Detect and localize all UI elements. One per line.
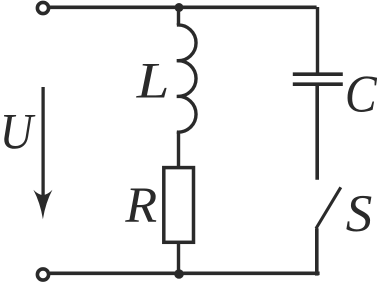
wire from top junction [177, 8, 180, 26]
svg-text:L: L [136, 52, 170, 109]
capacitor C [293, 74, 343, 84]
node junction bottom [174, 269, 184, 279]
inductor L [177, 25, 196, 132]
terminal top-left [37, 2, 48, 13]
wire resistor to bottom node [177, 242, 180, 275]
wire capacitor to switch [315, 84, 319, 179]
wire bottom [50, 271, 320, 275]
wire top [50, 6, 317, 10]
switch S blade [316, 187, 341, 228]
svg-text:C: C [345, 64, 377, 123]
resistor R [164, 168, 194, 243]
svg-text:R: R [124, 177, 157, 233]
arrow U head [33, 190, 52, 219]
node junction top [175, 3, 184, 12]
wire inductor to resistor [177, 132, 180, 168]
arrow U shaft [41, 87, 44, 198]
svg-text:S: S [346, 185, 373, 243]
wire switch to bottom [315, 228, 319, 275]
wire right top [316, 7, 319, 74]
terminal bottom-left [37, 269, 48, 280]
svg-text:U: U [0, 104, 36, 160]
